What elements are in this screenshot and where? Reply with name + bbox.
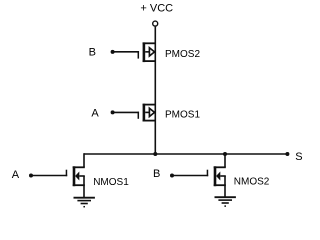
transistor NMOS1 <box>66 166 84 186</box>
svg-text:B: B <box>89 47 96 59</box>
svg-text:A: A <box>91 108 99 120</box>
node A (middle input) <box>91 108 99 120</box>
label PMOS2 <box>165 49 200 60</box>
svg-text:PMOS1: PMOS1 <box>165 109 200 120</box>
svg-text:B: B <box>153 168 160 180</box>
node S label <box>295 151 302 163</box>
svg-text:NMOS1: NMOS1 <box>93 177 129 188</box>
node B (bottom input) <box>153 168 160 180</box>
node A (left input) <box>12 169 20 181</box>
terminal dot A middle <box>111 110 115 114</box>
terminal dot S <box>285 152 289 156</box>
svg-text:A: A <box>12 169 20 181</box>
svg-text:PMOS2: PMOS2 <box>165 49 200 60</box>
svg-text:S: S <box>295 151 302 163</box>
wire B to PMOS2 gate <box>113 51 139 53</box>
ground NMOS2 <box>215 197 236 206</box>
terminal VCC <box>153 21 158 26</box>
ground NMOS1 <box>74 198 95 207</box>
transistor NMOS2 <box>207 166 225 186</box>
wire VCC rail down through PMOS2 and PMOS1 to output node <box>154 27 156 154</box>
label NMOS2 <box>234 176 270 187</box>
label PMOS1 <box>165 109 200 120</box>
node VCC label <box>140 2 173 14</box>
wire A to NMOS1 gate <box>31 175 67 177</box>
wire node to NMOS2 drain <box>224 154 226 167</box>
wire output node line <box>84 153 287 155</box>
wire node to NMOS1 drain <box>83 153 85 167</box>
transistor PMOS2 <box>138 42 155 62</box>
terminal dot A left <box>29 174 33 178</box>
svg-text:+ VCC: + VCC <box>140 2 173 14</box>
terminal dot B bottom <box>170 174 174 178</box>
wire NMOS2 body-source to ground <box>224 176 226 197</box>
svg-text:NMOS2: NMOS2 <box>234 176 270 187</box>
terminal dot B top <box>111 50 115 54</box>
junction dot PMOS1-node <box>153 152 157 156</box>
wire B to NMOS2 gate <box>172 175 208 177</box>
junction dot NMOS2-node <box>223 152 227 156</box>
wire A to PMOS1 gate <box>113 111 139 113</box>
node B (top input) <box>89 47 96 59</box>
wire NMOS1 body-source to ground <box>83 176 85 198</box>
label NMOS1 <box>93 177 129 188</box>
transistor PMOS1 <box>138 104 155 122</box>
